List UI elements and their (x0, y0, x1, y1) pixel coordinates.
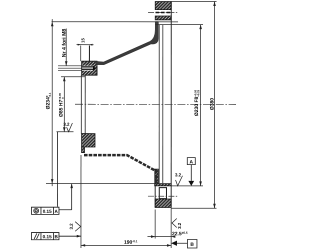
svg-text:0.15: 0.15 (43, 234, 52, 239)
svg-text:B: B (190, 242, 194, 248)
svg-text:3.2: 3.2 (63, 122, 70, 127)
svg-text:Nr 4 fori M8: Nr 4 fori M8 (62, 29, 68, 58)
svg-text:Ø380: Ø380 (210, 98, 216, 110)
svg-text:15: 15 (80, 37, 85, 42)
svg-text:0.15: 0.15 (43, 209, 52, 214)
svg-text:3.2: 3.2 (177, 222, 182, 229)
svg-text:A: A (190, 159, 194, 165)
svg-text:Ø230 F8+0.50+0.25: Ø230 F8+0.50+0.25 (194, 89, 200, 116)
svg-text:3.2: 3.2 (175, 172, 182, 177)
svg-text:3.2: 3.2 (69, 223, 74, 230)
